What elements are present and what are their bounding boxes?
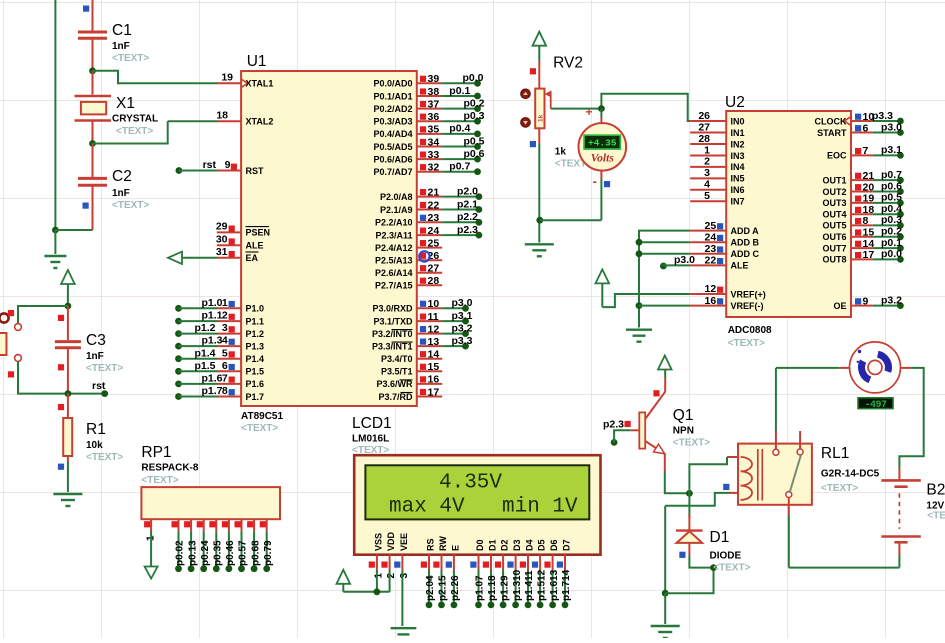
svg-text:p3.1: p3.1: [451, 310, 472, 322]
svg-text:OUT5: OUT5: [822, 221, 846, 231]
U1 pin 21 P2.0: [417, 196, 442, 198]
junction dot voltmeter+: [598, 105, 605, 112]
svg-text:3: 3: [222, 322, 228, 334]
svg-text:P2.7/A15: P2.7/A15: [375, 281, 413, 291]
svg-text:<TEXT>: <TEXT>: [713, 563, 750, 574]
svg-text:RW: RW: [438, 536, 448, 551]
svg-text:C3: C3: [86, 332, 106, 349]
svg-text:19: 19: [863, 193, 875, 205]
U2 pin 20 OUT2: [851, 191, 873, 193]
wire relay to motor: [775, 368, 777, 431]
svg-text:<TEXT>: <TEXT>: [116, 126, 153, 137]
U1 pin 34 P0.5: [417, 146, 442, 148]
svg-text:Q1: Q1: [673, 407, 694, 424]
svg-text:32: 32: [428, 162, 440, 174]
svg-text:p0.6: p0.6: [881, 180, 902, 192]
U2 pin 19 OUT3: [851, 202, 873, 204]
no-connect marker pin 26: [419, 251, 429, 261]
U2 pin 1 IN3: [690, 155, 726, 157]
svg-text:RESPACK-8: RESPACK-8: [141, 463, 198, 474]
svg-text:1nF: 1nF: [112, 188, 130, 199]
wire button top: [18, 306, 68, 323]
U2 pin 15 OUT6: [851, 236, 873, 238]
junction dot gnd rail: [52, 227, 59, 234]
svg-text:p2.3: p2.3: [603, 419, 624, 431]
svg-text:RV2: RV2: [553, 55, 583, 72]
svg-text:p0.7: p0.7: [881, 169, 902, 181]
svg-text:D7: D7: [562, 539, 572, 551]
svg-text:P2.1/A9: P2.1/A9: [380, 205, 413, 215]
svg-text:P3.0/RXD: P3.0/RXD: [372, 304, 413, 314]
svg-text:B2: B2: [926, 482, 945, 499]
U2 pin 2 IN4: [690, 166, 726, 168]
svg-text:VREF(+): VREF(+): [731, 289, 766, 299]
U2 pin 8 OUT5: [851, 224, 873, 226]
svg-text:+4.35: +4.35: [588, 138, 617, 149]
svg-text:P0.0/AD0: P0.0/AD0: [373, 79, 412, 89]
U2 pin 3 IN5: [690, 177, 726, 179]
power arrow collector: [658, 356, 672, 370]
pot RV2: [538, 61, 540, 89]
svg-text:13: 13: [428, 336, 440, 348]
svg-text:12: 12: [428, 323, 440, 335]
svg-text:CLOCK: CLOCK: [815, 116, 847, 126]
U1 pin 33 P0.6: [417, 158, 442, 160]
svg-text:27: 27: [698, 121, 710, 133]
junction dot voltmeter-: [536, 217, 543, 224]
svg-text:p1.7: p1.7: [201, 385, 222, 397]
svg-text:P3.7/RD: P3.7/RD: [378, 392, 413, 402]
ground under VEE: [391, 627, 417, 629]
svg-text:min 1V: min 1V: [502, 496, 578, 519]
power arrow above reset node: [61, 270, 75, 284]
wire ALE p3.0: [660, 263, 667, 270]
wire ground rail top-left: [54, 0, 56, 230]
svg-text:CRYSTAL: CRYSTAL: [112, 114, 158, 125]
svg-text:1k: 1k: [538, 114, 545, 122]
wire VEE to ground: [401, 570, 403, 626]
U2 pin 18 OUT4: [851, 213, 873, 215]
svg-text:p2.2: p2.2: [457, 211, 478, 223]
svg-text:33: 33: [428, 149, 440, 161]
U2 pin 7 EOC: [851, 154, 873, 156]
svg-text:19: 19: [221, 72, 233, 84]
U2 pin 16 VREF-: [690, 305, 726, 307]
U1 pin 18 XTAL2: [218, 120, 242, 122]
svg-text:<TEXT>: <TEXT>: [728, 338, 765, 349]
svg-text:<TEXT>: <TEXT>: [112, 53, 149, 64]
svg-text:4: 4: [222, 335, 228, 347]
svg-text:P0.5/AD5: P0.5/AD5: [373, 142, 412, 152]
svg-text:16: 16: [428, 374, 440, 386]
svg-text:p0.24: p0.24: [200, 540, 211, 566]
svg-text:P3.4/T0: P3.4/T0: [381, 354, 413, 364]
button node squares: [8, 310, 14, 316]
svg-text:5: 5: [704, 190, 710, 202]
svg-text:p0.2: p0.2: [881, 226, 902, 238]
junction dot C1/X1/XTAL1: [89, 67, 96, 74]
motor rpm display: [858, 398, 893, 409]
U1 pin 27 P2.6: [417, 272, 442, 274]
svg-text:p0.1: p0.1: [881, 237, 902, 249]
svg-text:LM016L: LM016L: [352, 434, 389, 445]
svg-text:P0.7/AD7: P0.7/AD7: [373, 167, 412, 177]
svg-text:RST: RST: [246, 166, 265, 176]
svg-text:9: 9: [863, 295, 869, 307]
svg-text:p1.613: p1.613: [549, 569, 560, 601]
svg-text:Volts: Volts: [591, 153, 615, 165]
U2 pin 9 OE: [851, 305, 873, 307]
svg-text:23: 23: [428, 212, 440, 224]
diode D1: [688, 493, 690, 517]
U1 pin 32 P0.7: [417, 171, 442, 173]
svg-text:OE: OE: [833, 301, 846, 311]
U2 pin 24 ADD B: [690, 241, 726, 243]
svg-text:<TEXT>: <TEXT>: [112, 200, 149, 211]
U2 pin 28 IN2: [690, 143, 726, 145]
RP1 pin 3 p0.1: [190, 519, 192, 531]
svg-text:P0.4/AD4: P0.4/AD4: [373, 129, 412, 139]
svg-text:p1.714: p1.714: [561, 569, 572, 601]
voltmeter display: [584, 135, 620, 149]
svg-text:ADD B: ADD B: [731, 238, 760, 248]
svg-text:1: 1: [704, 144, 710, 156]
svg-text:p1.18: p1.18: [487, 575, 498, 601]
svg-text:IN5: IN5: [731, 174, 745, 184]
svg-text:p3.0: p3.0: [451, 297, 472, 309]
adc U2 ADC0808 body: [726, 111, 851, 317]
capacitor C2: [92, 144, 94, 178]
svg-text:<TEXT>: <TEXT>: [673, 438, 710, 449]
junction dot bottom rail: [662, 590, 669, 597]
svg-text:P2.3/A11: P2.3/A11: [375, 230, 412, 240]
svg-text:p0.1: p0.1: [449, 85, 470, 97]
svg-text:p2.3: p2.3: [457, 224, 478, 236]
junction dot emitter node: [686, 490, 693, 497]
svg-text:24: 24: [428, 225, 440, 237]
U2 pin 10 CLOCK: [851, 120, 873, 122]
svg-text:ALE: ALE: [731, 261, 749, 271]
svg-text:1: 1: [222, 297, 228, 309]
svg-text:p0.79: p0.79: [263, 540, 274, 566]
svg-text:-497: -497: [864, 400, 887, 411]
U1 pin 29 PSEN: [217, 231, 241, 233]
svg-text:G2R-14-DC5: G2R-14-DC5: [821, 469, 880, 480]
svg-text:22: 22: [428, 199, 440, 211]
RP1 pin 9 p0.7: [266, 519, 268, 531]
pot wiper arrow: [550, 94, 552, 109]
junction dots ADD trunk: [636, 239, 643, 246]
clock chevron U2: [844, 117, 851, 126]
Q1 emitter: [645, 441, 665, 454]
U1 pin 25 P2.4: [417, 247, 442, 249]
U1 pin 39 P0.0: [417, 82, 442, 84]
svg-text:p1.2: p1.2: [194, 322, 215, 334]
svg-text:P3.5/T1: P3.5/T1: [381, 367, 413, 377]
lcd screen: [365, 465, 589, 519]
junction dot reset top: [65, 303, 72, 310]
ground ADD trunk: [626, 329, 652, 331]
svg-text:OUT8: OUT8: [822, 255, 846, 265]
ground top-left: [44, 255, 66, 257]
svg-text:10k: 10k: [86, 440, 103, 451]
svg-text:18: 18: [216, 110, 228, 122]
svg-text:7: 7: [863, 145, 869, 157]
op U1 AT89C51 body: [241, 71, 417, 406]
svg-text:P2.0/A8: P2.0/A8: [380, 192, 413, 202]
U1 pin 5 P1.4: [175, 355, 182, 362]
svg-text:p0.57: p0.57: [238, 540, 249, 566]
svg-text:XTAL2: XTAL2: [246, 117, 274, 127]
svg-text:17: 17: [863, 249, 875, 261]
svg-text:9: 9: [225, 159, 231, 171]
capacitor C3: [67, 306, 69, 340]
svg-text:<TEXT>: <TEXT>: [241, 423, 278, 434]
resistor-pack RP1 body: [141, 487, 280, 519]
svg-text:C2: C2: [112, 168, 132, 185]
svg-text:LCD1: LCD1: [352, 415, 392, 432]
svg-text:IN0: IN0: [731, 116, 745, 126]
svg-text:34: 34: [428, 136, 440, 148]
U1 pin 9 RST: [176, 167, 183, 174]
svg-text:IN4: IN4: [731, 162, 745, 172]
svg-text:P3.6/WR: P3.6/WR: [376, 379, 413, 389]
Q1 collector: [645, 392, 665, 419]
svg-text:4.35V: 4.35V: [439, 472, 502, 495]
svg-text:p1.3: p1.3: [201, 335, 222, 347]
svg-text:35: 35: [428, 124, 440, 136]
svg-text:p2.1: p2.1: [457, 198, 478, 210]
svg-text:P1.0: P1.0: [246, 304, 265, 314]
svg-text:p1.1: p1.1: [201, 310, 222, 322]
RP1 pin 6 p0.4: [228, 519, 230, 531]
svg-text:p0.7: p0.7: [449, 161, 470, 173]
relay top pins: [775, 431, 777, 449]
svg-text:7: 7: [222, 373, 228, 385]
svg-text:p1.512: p1.512: [536, 569, 547, 601]
svg-text:1k: 1k: [555, 147, 567, 158]
U1 pin 1 P1.0: [175, 305, 182, 312]
svg-text:p3.2: p3.2: [451, 322, 472, 334]
resistor R1: [58, 404, 64, 410]
svg-text:X1: X1: [116, 95, 135, 112]
svg-text:p1.6: p1.6: [201, 373, 222, 385]
wire vcc vertical to C1: [92, 0, 94, 31]
U2 pin 26 IN0: [690, 120, 726, 122]
svg-text:22: 22: [705, 255, 717, 267]
svg-text:OUT3: OUT3: [822, 198, 846, 208]
svg-text:<TEXT>: <TEXT>: [821, 483, 858, 494]
crystal X1: [92, 71, 94, 95]
svg-text:p1.07: p1.07: [475, 575, 486, 601]
svg-text:11: 11: [428, 311, 439, 323]
U2 pin 4 IN6: [690, 189, 726, 191]
svg-text:D3: D3: [512, 539, 522, 551]
svg-text:p0.3: p0.3: [463, 110, 484, 122]
svg-text:p0.46: p0.46: [225, 540, 236, 566]
svg-text:P0.3/AD3: P0.3/AD3: [373, 117, 412, 127]
svg-text:AT89C51: AT89C51: [241, 411, 283, 422]
RP1 pin 5 p0.3: [215, 519, 217, 531]
RP1 pin 4 p0.2: [203, 519, 205, 531]
svg-text:38: 38: [428, 86, 440, 98]
svg-text:P1.3: P1.3: [246, 341, 265, 351]
svg-text:p3.0: p3.0: [881, 121, 902, 133]
U1 pin 3 P1.2: [175, 330, 182, 337]
U2 pin 14 OUT7: [851, 247, 873, 249]
svg-text:p3.0: p3.0: [674, 254, 695, 266]
power arrow LCD VSS/VDD: [337, 570, 351, 584]
svg-text:p3.1: p3.1: [881, 144, 902, 156]
U1 pin 24 P2.3: [417, 234, 442, 236]
svg-text:U1: U1: [247, 53, 267, 70]
svg-text:28: 28: [698, 133, 710, 145]
svg-text:P1.7: P1.7: [246, 392, 265, 402]
motor terminals: [839, 367, 849, 369]
battery B2: [898, 468, 900, 480]
wire ground rail Q1/D1: [664, 506, 666, 594]
motor body: [850, 342, 901, 393]
svg-text:D1: D1: [710, 529, 730, 546]
svg-text:OUT6: OUT6: [822, 232, 846, 242]
relay coil: [741, 457, 753, 500]
junction dot VSS: [374, 588, 381, 595]
svg-text:D5: D5: [537, 539, 547, 551]
node square coil bottom: [723, 484, 729, 490]
svg-text:1nF: 1nF: [86, 351, 104, 362]
svg-text:P1.4: P1.4: [246, 354, 265, 364]
wire XTAL1 net: [93, 71, 218, 84]
U1 pin 19 XTAL1: [218, 82, 242, 84]
U1 pin 36 P0.3: [417, 120, 442, 122]
svg-text:14: 14: [428, 349, 440, 361]
svg-text:p0.4: p0.4: [449, 123, 470, 135]
svg-text:E: E: [450, 545, 460, 551]
U2 pin 23 ADD C: [690, 253, 726, 255]
svg-text:rst: rst: [92, 380, 106, 392]
junction dot X1/C2/XTAL2: [89, 140, 96, 147]
svg-text:2: 2: [386, 573, 397, 579]
ground under RV2: [525, 243, 554, 245]
svg-text:10: 10: [428, 298, 440, 310]
svg-text:6: 6: [863, 122, 869, 134]
svg-text:p1.29: p1.29: [499, 575, 510, 601]
svg-text:p0.4: p0.4: [881, 203, 902, 215]
svg-text:20: 20: [863, 181, 875, 193]
U1 pin 23 P2.2: [417, 221, 442, 223]
svg-text:OUT4: OUT4: [822, 210, 846, 220]
U1 pin 11 P3.1: [417, 320, 442, 322]
svg-text:P0.1/AD1: P0.1/AD1: [373, 91, 412, 101]
svg-text:15: 15: [428, 361, 440, 373]
svg-text:4: 4: [704, 179, 710, 191]
svg-text:VDD: VDD: [386, 531, 396, 551]
power arrow RV2: [533, 32, 547, 46]
svg-text:RP1: RP1: [141, 444, 171, 461]
U1 pin 31 EA: [168, 252, 182, 264]
ground under R1: [53, 493, 82, 495]
U1 pin 12 P3.2: [417, 333, 442, 335]
svg-text:p0.5: p0.5: [463, 135, 484, 147]
svg-text:P3.3/INT1: P3.3/INT1: [372, 341, 413, 351]
U1 pin 13 P3.3: [417, 345, 442, 347]
U1 pin 10 P3.0: [417, 307, 442, 309]
lcd LCD1 body: [354, 455, 600, 555]
relay armature: [790, 455, 802, 493]
svg-text:16: 16: [705, 295, 717, 307]
svg-text:XTAL1: XTAL1: [246, 79, 274, 89]
svg-text:P1.5: P1.5: [246, 367, 265, 377]
U1 pin 37 P0.2: [417, 108, 442, 110]
svg-text:P0.2/AD2: P0.2/AD2: [373, 104, 412, 114]
svg-text:DIODE: DIODE: [710, 551, 742, 562]
wire to relay coil top: [689, 457, 727, 493]
svg-text:max 4V: max 4V: [389, 496, 465, 519]
relay bottom pin: [788, 498, 790, 515]
svg-text:p2.26: p2.26: [450, 575, 461, 601]
svg-text:2: 2: [222, 310, 228, 322]
svg-text:15: 15: [863, 227, 875, 239]
U1 pin 38 P0.1: [417, 95, 442, 97]
svg-text:3: 3: [704, 167, 710, 179]
svg-text:p3.2: p3.2: [881, 294, 902, 306]
svg-text:p2.0: p2.0: [457, 185, 478, 197]
svg-text:IN6: IN6: [731, 185, 745, 195]
svg-text:RS: RS: [426, 538, 436, 551]
transistor Q1 base bar: [639, 412, 645, 448]
node square D1: [679, 552, 685, 558]
U1 pin 15 P3.5: [417, 370, 442, 372]
svg-text:28: 28: [428, 275, 440, 287]
RP1 pin 7 p0.5: [241, 519, 243, 531]
svg-text:8: 8: [863, 215, 869, 227]
svg-text:p0.0: p0.0: [462, 72, 483, 84]
svg-text:37: 37: [428, 98, 440, 110]
relay switch contacts: [773, 449, 779, 455]
U1 pin 35 P0.4: [417, 133, 442, 135]
down arrow RP1 pin1: [145, 567, 158, 579]
svg-text:p2.15: p2.15: [438, 575, 449, 601]
U1 pin 16 P3.6: [417, 383, 442, 385]
svg-text:p1.310: p1.310: [512, 569, 523, 601]
svg-text:25: 25: [428, 237, 440, 249]
svg-text:P1.2: P1.2: [246, 329, 265, 339]
U1 pin 2 P1.1: [175, 318, 182, 325]
svg-text:EOC: EOC: [827, 151, 847, 161]
capacitor C1: [78, 31, 107, 34]
pot adjust buttons: [521, 89, 531, 99]
svg-text:EA: EA: [246, 253, 259, 263]
svg-text:P3.2/INT0: P3.2/INT0: [372, 329, 413, 339]
svg-text:VSS: VSS: [373, 533, 383, 551]
svg-text:VEE: VEE: [399, 533, 409, 551]
svg-text:p1.411: p1.411: [524, 570, 535, 601]
svg-text:31: 31: [216, 246, 228, 258]
svg-text:26: 26: [698, 110, 710, 122]
svg-text:P2.2/A10: P2.2/A10: [375, 218, 413, 228]
svg-text:P3.1/TXD: P3.1/TXD: [373, 316, 413, 326]
node square at C1 top: [83, 6, 89, 12]
U1 pin 7 P1.6: [175, 381, 182, 388]
U2 pin 17 OUT8: [851, 258, 873, 260]
U1 pin 26 P2.5: [417, 259, 442, 261]
U2 pin 12 VREF+: [690, 293, 726, 295]
svg-text:p0.6: p0.6: [463, 148, 484, 160]
svg-text:START: START: [817, 128, 847, 138]
svg-text:P2.6/A14: P2.6/A14: [375, 268, 413, 278]
svg-text:3: 3: [399, 573, 410, 579]
svg-text:<TEXT>: <TEXT>: [86, 452, 123, 463]
